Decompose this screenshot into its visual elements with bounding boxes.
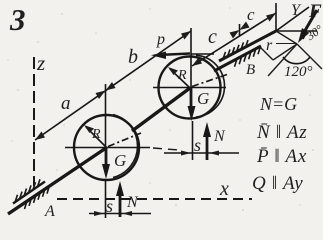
- lower wheel normal force N arrow: [119, 190, 122, 217]
- svg-text:N: N: [213, 128, 226, 145]
- dashed continuation of lower centerline: [153, 148, 179, 150]
- short horizontal reference at F point: [276, 43, 297, 45]
- hatching below lower band line: [235, 46, 261, 67]
- incline band lower thick line: [214, 46, 261, 71]
- lower wheel circle: [74, 115, 139, 180]
- incline beam thick line middle segment C1 rim to C2: [132, 88, 190, 131]
- steep edge line from F point down-left: [268, 44, 297, 76]
- svg-text:R: R: [91, 127, 101, 142]
- upper s dimension line: [164, 152, 239, 154]
- support upper parallel line near A: [13, 182, 45, 204]
- hatching above support line near A: [15, 179, 40, 202]
- axle dash-dot from upper wheel center: [192, 75, 227, 87]
- arrowhead at upper wheel tick: [181, 31, 191, 40]
- upper G line of action extension: [192, 121, 194, 160]
- incline beam thick line lower segment A to C1: [8, 148, 106, 214]
- axle dash-dot from lower wheel center: [108, 133, 141, 147]
- svg-text:z: z: [36, 51, 45, 75]
- P line of action thin extension: [191, 53, 214, 55]
- svg-text:p: p: [156, 31, 165, 48]
- arrowhead at start of c chain: [192, 58, 202, 67]
- svg-text:G: G: [114, 151, 126, 170]
- svg-text:Q ‖ Ay: Q ‖ Ay: [252, 173, 303, 194]
- upper wheel circle: [159, 57, 221, 119]
- upper wheel normal force N arrow: [206, 131, 209, 160]
- arrow pair at lower wheel tick: [96, 91, 106, 100]
- parallelogram edge F point to bottom vertex: [273, 44, 297, 60]
- svg-text:G: G: [197, 89, 209, 108]
- incline band upper thick line to corner: [219, 31, 276, 61]
- arrow pair at mid tick: [230, 30, 240, 39]
- parallelogram edge bottom vertex to left vertex: [259, 46, 273, 60]
- svg-text:c: c: [247, 5, 255, 24]
- x axis dashed line: [57, 198, 252, 200]
- svg-text:F: F: [308, 1, 322, 22]
- 120 degree arc: [283, 57, 310, 64]
- arrowhead at corner end of c chain: [266, 13, 276, 22]
- 30 degree arc: [303, 31, 305, 39]
- svg-text:s: s: [194, 135, 201, 155]
- svg-text:120°: 120°: [284, 64, 313, 80]
- svg-text:c: c: [208, 26, 217, 48]
- hatching below main incline line near A: [25, 186, 50, 209]
- lower G line of action extension: [105, 179, 107, 218]
- svg-text:b: b: [128, 46, 138, 68]
- svg-text:x: x: [219, 178, 229, 200]
- upper wheel horizontal centerline: [153, 87, 226, 89]
- upper wheel rear rim arc: [196, 55, 225, 117]
- vertical extension from upper wheel center up to dimension chain: [190, 28, 192, 88]
- svg-text:N: N: [126, 194, 139, 211]
- svg-text:P̄ ‖ Ax: P̄ ‖ Ax: [256, 146, 307, 167]
- lower wheel horizontal centerline: [65, 147, 150, 149]
- svg-text:N̄ ‖ Az: N̄ ‖ Az: [256, 122, 307, 143]
- z axis dashed line: [33, 57, 35, 186]
- end face parallelogram edge corner to F point: [276, 31, 297, 44]
- mid tick of c chain: [239, 24, 241, 36]
- svg-text:a: a: [61, 93, 71, 114]
- svg-text:N=G: N=G: [259, 94, 297, 114]
- vertical extension from lower wheel center up to dimension chain: [105, 84, 107, 148]
- svg-text:R: R: [177, 68, 187, 83]
- lower end edge ray 45 degrees: [297, 44, 322, 69]
- lower s dimension line: [89, 213, 151, 215]
- hatching above upper band line: [223, 40, 248, 59]
- svg-text:r: r: [266, 37, 273, 54]
- svg-text:A: A: [44, 203, 55, 220]
- left dimension chain line a and b: [35, 31, 191, 140]
- arrowhead at z axis end: [35, 132, 45, 141]
- force P thick arrow pointing left: [158, 54, 190, 56]
- Y axis ray: [276, 7, 309, 31]
- upper wheel weight force G arrow: [190, 88, 193, 112]
- upper wheel radius ray R with arrowhead: [170, 69, 190, 88]
- right dimension chain line c and c: [192, 13, 276, 66]
- force F thick arrow: [303, 10, 317, 34]
- svg-text:B: B: [246, 62, 255, 78]
- lower wheel weight force G arrow: [105, 148, 108, 170]
- corner vertical extension line at top: [275, 3, 277, 31]
- horizontal reference ray at corner: [276, 30, 317, 32]
- lower wheel radius ray R with arrowhead: [86, 127, 107, 148]
- svg-text:3: 3: [9, 2, 26, 37]
- lower wheel rear rim arc: [113, 115, 137, 178]
